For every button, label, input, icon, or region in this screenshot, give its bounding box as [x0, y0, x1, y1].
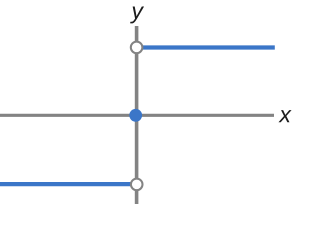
x axis label	[278, 110, 291, 122]
x-axis	[0, 114, 274, 117]
filled dot at origin	[129, 109, 142, 122]
open circle at (0,-1)	[131, 179, 143, 191]
bottom branch: y=-1 for x<0	[0, 182, 131, 186]
open circle at (0,1)	[131, 42, 143, 54]
y axis label	[130, 6, 144, 23]
y-axis	[135, 26, 139, 204]
top branch: y=1 for x>0	[143, 45, 275, 49]
